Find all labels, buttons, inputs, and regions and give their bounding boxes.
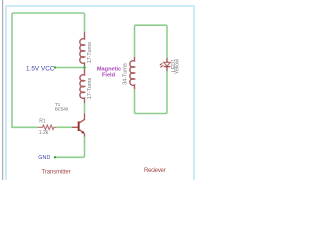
- wire receiver loop bottom: [135, 71, 168, 114]
- wire VCC to coil center tap: [56, 67, 85, 69]
- node GND dot: [54, 156, 56, 158]
- svg-text:17-Turns: 17-Turns: [87, 78, 93, 100]
- wire emitter to GND: [55, 137, 85, 158]
- wire coil bottom to collector: [84, 103, 86, 114]
- wire transmitter loop: left vertical, top, down to coil: [12, 13, 85, 127]
- svg-text:17-Turns: 17-Turns: [87, 42, 93, 64]
- wire base wire: [56, 126, 72, 128]
- svg-text:GND: GND: [38, 155, 50, 161]
- inductor L1 lower half 17-Turns: [80, 69, 85, 103]
- resistor R1: [38, 125, 56, 129]
- svg-text:1.2k: 1.2k: [39, 130, 49, 136]
- svg-text:R1: R1: [39, 118, 46, 124]
- node VCC dot: [54, 66, 56, 68]
- svg-text:Field: Field: [102, 72, 116, 78]
- svg-text:Reciever: Reciever: [144, 168, 166, 174]
- transistor Q1 T1 BC549: [72, 114, 85, 137]
- node junction center tap: [83, 66, 86, 69]
- svg-text:1.5V VCC: 1.5V VCC: [26, 65, 55, 72]
- svg-text:Transmitter: Transmitter: [42, 169, 71, 175]
- wire receiver loop top: [135, 25, 168, 58]
- svg-text:Magnetic: Magnetic: [97, 66, 121, 72]
- inductor L1 upper half 17-Turns: [80, 32, 85, 66]
- svg-text:Yellow: Yellow: [175, 59, 181, 74]
- inductor L2 34-Turns receiver coil: [130, 57, 135, 89]
- svg-text:BC549: BC549: [55, 107, 69, 113]
- LED LED1 Yellow: [159, 58, 170, 71]
- svg-text:34-Turns: 34-Turns: [123, 63, 129, 85]
